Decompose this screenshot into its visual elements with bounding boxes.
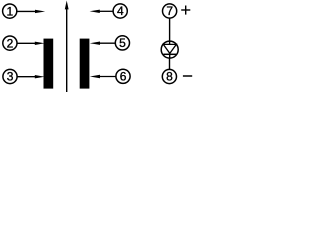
wire arrow from pin 3 bbox=[17, 75, 44, 78]
svg-text:1: 1 bbox=[6, 4, 13, 18]
wire arrow from pin 2 bbox=[17, 42, 45, 45]
background bbox=[0, 0, 197, 92]
grating bar left bbox=[44, 39, 54, 89]
pin 1 circle bbox=[3, 4, 17, 18]
wire arrow from pin 6 bbox=[90, 75, 116, 78]
pin 2 circle bbox=[3, 36, 17, 50]
wire LED to pin 8 bbox=[169, 58, 171, 69]
svg-text:2: 2 bbox=[7, 36, 14, 50]
LED / diode D1 bbox=[161, 41, 178, 58]
wire arrow from pin 5 bbox=[90, 42, 116, 45]
pin 4 circle bbox=[113, 4, 127, 18]
svg-text:3: 3 bbox=[7, 70, 14, 84]
pin 6 circle bbox=[116, 69, 130, 83]
svg-text:5: 5 bbox=[119, 36, 126, 50]
wire arrow from pin 4 bbox=[90, 10, 114, 13]
svg-text:6: 6 bbox=[120, 70, 127, 84]
minus label bbox=[183, 75, 192, 77]
svg-text:7: 7 bbox=[166, 4, 173, 18]
center axis line with up arrow bbox=[65, 1, 69, 93]
wire arrow from pin 1 bbox=[17, 10, 45, 13]
plus label bbox=[181, 6, 190, 15]
grating bar right bbox=[80, 39, 90, 89]
pin 8 circle bbox=[162, 69, 176, 83]
pin 3 circle bbox=[3, 69, 17, 83]
wire pin7 to LED bbox=[169, 19, 171, 46]
svg-text:8: 8 bbox=[166, 70, 173, 84]
pin 7 circle bbox=[163, 4, 177, 18]
svg-text:4: 4 bbox=[117, 4, 124, 18]
pin 5 circle bbox=[115, 36, 129, 50]
